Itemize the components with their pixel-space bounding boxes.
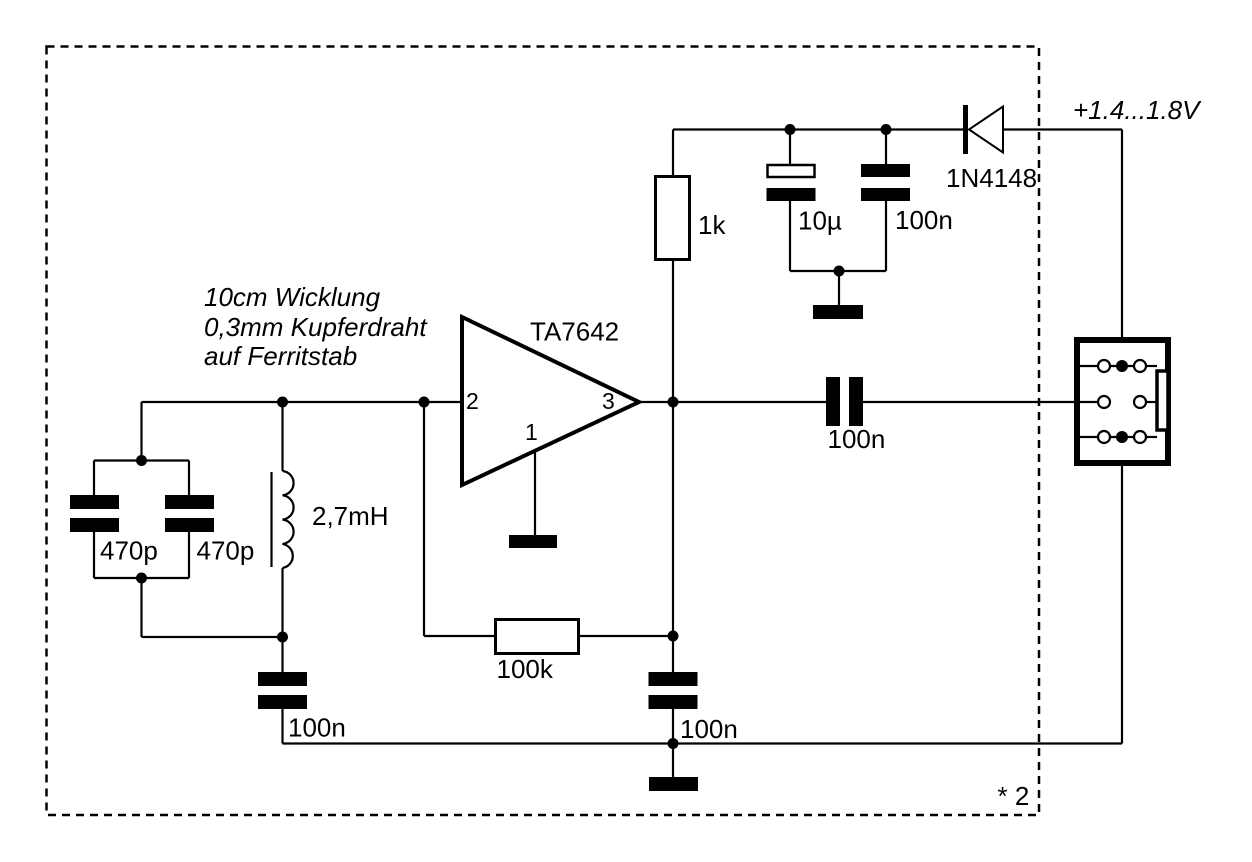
capacitor 100n coupling xyxy=(826,377,863,426)
wire: top rail xyxy=(673,128,964,130)
connector pin circle r3c1 xyxy=(1098,431,1110,443)
capacitor 470p right xyxy=(165,495,214,532)
node on input at inductor xyxy=(277,397,288,408)
svg-text:100n: 100n xyxy=(828,424,886,454)
annotation coil winding text xyxy=(204,282,428,371)
connector pin circle r3c2 xyxy=(1134,431,1146,443)
svg-text:1N4148: 1N4148 xyxy=(946,163,1037,193)
inductor 2,7mH xyxy=(272,471,294,568)
capacitor 10u electrolytic xyxy=(767,165,816,201)
wire: IC pin 1 ground lead xyxy=(534,452,536,536)
amplifier IC TA7642 xyxy=(462,317,639,485)
svg-text:+1.4...1.8V: +1.4...1.8V xyxy=(1073,95,1202,125)
svg-text:0,3mm Kupferdraht: 0,3mm Kupferdraht xyxy=(204,312,428,342)
wire: inductor bottom lead xyxy=(281,568,283,637)
connector pin circle r2c2 xyxy=(1134,396,1146,408)
wire: decoupling join xyxy=(790,270,886,272)
wire: left 470p top lead xyxy=(93,461,95,497)
wire: bottom rail xyxy=(283,742,1123,744)
node on input at feedback xyxy=(419,397,430,408)
wire: 1k top lead xyxy=(672,130,674,177)
connector row3 left lead xyxy=(1080,436,1098,438)
svg-text:TA7642: TA7642 xyxy=(530,317,619,347)
svg-text:10cm Wicklung: 10cm Wicklung xyxy=(204,282,381,312)
svg-text:100n: 100n xyxy=(680,714,738,744)
wire: 10u top lead xyxy=(789,130,791,166)
node top rail at 10u xyxy=(785,124,796,135)
svg-text:1: 1 xyxy=(525,419,538,445)
wire: tank bottom to inductor node xyxy=(142,636,283,638)
connector row3 right lead xyxy=(1146,436,1157,438)
ground at IC pin 1 xyxy=(509,535,557,548)
capacitor 100n output mid xyxy=(649,672,698,709)
wire: output column vertical xyxy=(672,260,674,672)
wire: left 470p bottom lead xyxy=(93,531,95,578)
wire: 10u bottom lead xyxy=(789,201,791,271)
wire: inductor top lead xyxy=(281,402,283,471)
connector row2 left lead xyxy=(1080,401,1098,403)
wire: 100k right to output column xyxy=(579,635,673,637)
wire: feedback to 100k left xyxy=(424,635,495,637)
connector row1 left lead xyxy=(1080,365,1098,367)
wire: left 100n bottom lead xyxy=(281,709,283,744)
diode 1N4148 xyxy=(963,105,1003,154)
wire: main input line y=402 xyxy=(142,401,463,403)
node tank top xyxy=(136,455,147,466)
wire: decoupling ground stub xyxy=(838,271,840,306)
svg-text:2,7mH: 2,7mH xyxy=(312,501,389,531)
svg-text:* 2: * 2 xyxy=(998,781,1030,811)
node bottom rail xyxy=(668,738,679,749)
connector row2 right lead xyxy=(1146,401,1157,403)
resistor 100k xyxy=(496,620,579,654)
wire: tank bottom drop xyxy=(140,578,142,637)
wire: right vertical upper segment xyxy=(1121,130,1123,367)
wire: left drop to tank top xyxy=(140,402,142,461)
connector pin circle r2c1 xyxy=(1098,396,1110,408)
wire: right 470p bottom lead xyxy=(188,531,190,578)
ground below bottom rail xyxy=(649,777,698,791)
svg-text:100n: 100n xyxy=(895,205,953,235)
connector pin circle r1c2 xyxy=(1134,360,1146,372)
node at IC output xyxy=(668,397,679,408)
capacitor 100n top decoupling xyxy=(861,164,910,201)
svg-text:100n: 100n xyxy=(288,713,346,743)
wire: output to coupling cap xyxy=(640,401,826,403)
wire: tank bracket bottom xyxy=(94,577,189,579)
connector row3 mid lead xyxy=(1110,436,1134,438)
node decoupling ground xyxy=(834,266,845,277)
svg-text:470p: 470p xyxy=(100,536,158,566)
resistor 1k xyxy=(656,177,690,260)
wire: tank bracket top xyxy=(94,459,189,461)
svg-text:auf Ferritstab: auf Ferritstab xyxy=(204,341,357,371)
svg-text:10µ: 10µ xyxy=(798,206,842,236)
wire: coupling cap to connector xyxy=(863,401,1098,403)
connector pad dot bottom xyxy=(1116,431,1128,443)
wire: feedback drop from pin 2 node xyxy=(423,402,425,636)
node inductor bottom xyxy=(277,632,288,643)
connector row1 right lead xyxy=(1146,365,1157,367)
wire: mid 100n bottom lead xyxy=(672,709,674,743)
connector pad dot top xyxy=(1116,360,1128,372)
node top rail at 100n xyxy=(881,124,892,135)
node feedback at output column xyxy=(668,631,679,642)
wire: top 100n bottom lead xyxy=(885,201,887,271)
node tank bottom xyxy=(136,573,147,584)
wire: top 100n top lead xyxy=(885,130,887,166)
svg-text:1k: 1k xyxy=(698,210,726,240)
wire: diode anode to right corner xyxy=(1003,128,1122,130)
capacitor 470p left xyxy=(70,495,119,532)
connector body xyxy=(1077,340,1168,463)
wire: ground stub below bottom rail xyxy=(672,744,674,779)
wire: right 470p top lead xyxy=(188,461,190,497)
dashed module border xyxy=(47,47,1040,816)
svg-text:3: 3 xyxy=(602,388,615,414)
connector row1 mid lead xyxy=(1110,365,1134,367)
svg-text:470p: 470p xyxy=(197,536,255,566)
ground for decoupling caps xyxy=(813,305,863,319)
wire: left 100n top lead xyxy=(281,637,283,672)
wire: right vertical lower segment xyxy=(1121,437,1123,744)
connector key notch xyxy=(1157,371,1168,430)
connector pin circle r1c1 xyxy=(1098,360,1110,372)
svg-text:100k: 100k xyxy=(497,654,554,684)
capacitor 100n tank bottom xyxy=(258,672,307,709)
svg-text:2: 2 xyxy=(466,388,479,414)
